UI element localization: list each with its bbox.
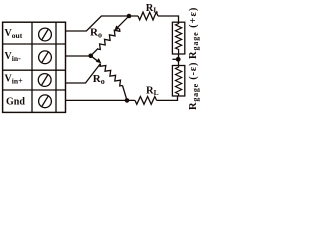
svg-text:Ro: Ro (90, 27, 102, 40)
svg-text:Gnd: Gnd (6, 97, 25, 108)
terminal block (3, 22, 66, 112)
gauge bottom zigzag (176, 67, 182, 94)
mid node stub (172, 58, 178, 60)
column separator 1 (31, 22, 33, 112)
terminal screw 4 (39, 95, 52, 108)
gauge top zigzag (176, 24, 182, 50)
node Vin- junction (88, 54, 93, 59)
wire Gnd rail (66, 99, 136, 101)
svg-text:Vout: Vout (5, 28, 23, 40)
row separator 2 (3, 69, 66, 71)
wiper arrow top Ro shaft (116, 16, 129, 29)
gauge box top (172, 22, 184, 54)
gauge box bottom (172, 66, 184, 97)
node Gnd rail (125, 98, 130, 103)
wiper arrow bottom Ro head (96, 58, 102, 63)
wire gnd rail right + up into bottom gauge (157, 96, 178, 100)
svg-text:Rgage (+ε): Rgage (+ε) (188, 7, 200, 59)
wiper arrow top Ro head (114, 25, 119, 30)
resistor Ro top zigzag (98, 29, 120, 50)
wire Vin- (66, 55, 91, 57)
row separator 3 (3, 89, 66, 91)
resistor RL bottom zigzag (135, 97, 157, 105)
resistor Ro bottom zigzag (100, 64, 122, 86)
gauge top inner stubs (178, 22, 180, 24)
wire Vin+ (66, 64, 101, 84)
terminal screw 3 (38, 74, 51, 87)
node mid bridge (176, 57, 181, 62)
svg-text:Rgage (-ε): Rgage (-ε) (188, 62, 200, 110)
svg-text:Ro: Ro (93, 73, 105, 86)
column separator 2 (55, 22, 57, 112)
gauge bottom inner stubs (178, 66, 180, 68)
resistor Ro bottom (lead to gnd rail) (123, 86, 128, 101)
wire Vout to top rail (66, 16, 139, 31)
terminal screw 2 (39, 51, 52, 64)
resistor RL top zigzag (138, 12, 158, 20)
node top rail (127, 14, 132, 19)
terminal screw 1 (39, 28, 52, 41)
wiper arrow bottom Ro shaft (91, 56, 98, 61)
wire gauge top to mid node (178, 54, 180, 66)
svg-text:RL: RL (146, 86, 159, 98)
svg-text:Vin+: Vin+ (5, 74, 24, 86)
svg-text:Vin-: Vin- (5, 51, 22, 63)
wire top rail right + down into gauge (158, 16, 179, 22)
row separator 1 (3, 43, 66, 45)
svg-text:RL: RL (146, 3, 159, 15)
resistor Ro top (lead) (91, 49, 98, 56)
